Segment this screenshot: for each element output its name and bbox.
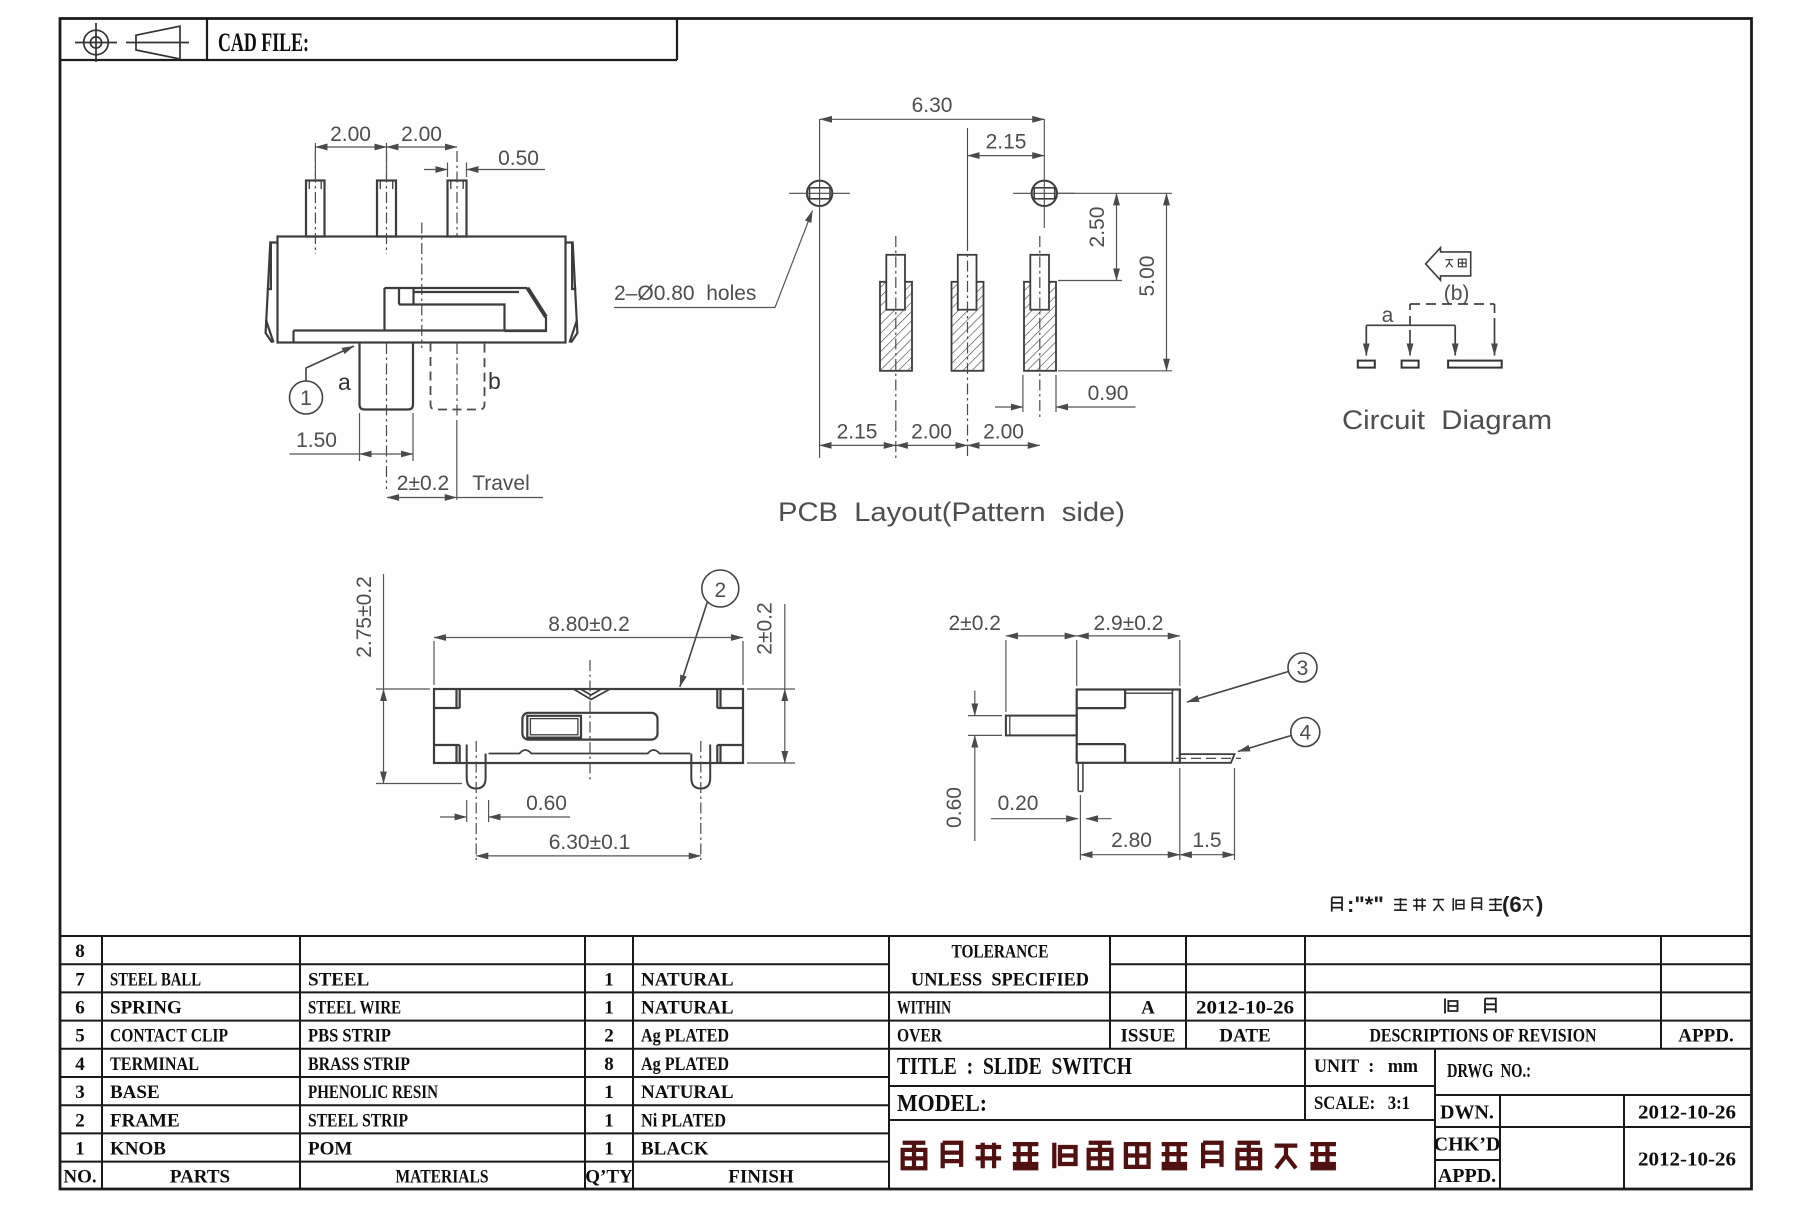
wire for position a (solid) with contact arrows — [1366, 325, 1455, 355]
side view base body — [1006, 690, 1235, 792]
solder pad 1 (hatched) — [880, 255, 912, 371]
svg-text:2±0.2: 2±0.2 — [754, 602, 777, 654]
dimensions 2±0.2 and 2.9±0.2 (top) — [1006, 636, 1180, 712]
svg-text:0.60: 0.60 — [943, 787, 966, 828]
svg-text:3: 3 — [1297, 657, 1309, 680]
dimension 2.75±0.2 — [376, 574, 462, 784]
svg-text:1: 1 — [75, 1139, 85, 1160]
dimension 2±0.2 Travel — [387, 420, 543, 500]
svg-text:STEEL WIRE: STEEL WIRE — [308, 998, 401, 1019]
svg-text:8.80±0.2: 8.80±0.2 — [548, 613, 630, 636]
svg-text:1: 1 — [604, 1082, 614, 1103]
svg-text:2.9±0.2: 2.9±0.2 — [1094, 612, 1164, 635]
svg-text:DWN.: DWN. — [1440, 1102, 1494, 1124]
svg-text:2: 2 — [604, 1026, 614, 1047]
svg-text:3: 3 — [75, 1082, 85, 1103]
svg-text:2012-10-26: 2012-10-26 — [1196, 998, 1294, 1019]
dimension 8.80±0.2 — [434, 638, 743, 686]
svg-text:DATE: DATE — [1219, 1026, 1270, 1047]
svg-text:STEEL STRIP: STEEL STRIP — [308, 1111, 408, 1132]
svg-text:6.30: 6.30 — [912, 94, 953, 117]
solder pad 3 (hatched) — [1024, 255, 1056, 371]
svg-text:BASE: BASE — [110, 1082, 160, 1103]
hole centerline crosses — [789, 119, 1075, 458]
svg-text:Ag PLATED: Ag PLATED — [641, 1026, 729, 1047]
balloon 3 (base item) — [1187, 653, 1317, 702]
svg-text:(b): (b) — [1444, 282, 1470, 305]
balloon 4 (terminal item) — [1238, 718, 1320, 752]
svg-text:5.00: 5.00 — [1136, 256, 1159, 297]
svg-text:TERMINAL: TERMINAL — [110, 1054, 199, 1075]
balloon 1 (knob item) — [290, 346, 355, 414]
pad centerlines dash-dot — [896, 236, 1040, 458]
dimension 2.15 (top) — [968, 155, 1045, 157]
svg-text:5: 5 — [75, 1026, 85, 1047]
knob (seen through slot) — [527, 716, 581, 738]
pin centerlines dash-dot — [315, 151, 457, 489]
knob b (hidden position, dashed) — [431, 343, 485, 410]
2-O0.80 holes callout with leader — [614, 211, 813, 308]
knob stem (side) — [1006, 716, 1077, 736]
reset direction arrow symbol (fu wei) — [1426, 248, 1471, 281]
dimension 6.30±0.1 (pin span) — [476, 855, 701, 857]
solder pad 2 (hatched) — [952, 255, 984, 371]
svg-text:APPD.: APPD. — [1678, 1026, 1733, 1047]
first-angle projection symbol (circle) — [75, 23, 117, 62]
svg-text:a: a — [1382, 304, 1394, 327]
svg-text:NO.: NO. — [63, 1167, 96, 1188]
svg-text:(6: (6 — [1502, 892, 1522, 917]
svg-text:KNOB: KNOB — [110, 1139, 166, 1160]
bent terminal strip right — [1180, 754, 1235, 763]
svg-text:4: 4 — [1299, 722, 1311, 745]
svg-text:NATURAL: NATURAL — [641, 1082, 734, 1103]
svg-text:1.50: 1.50 — [296, 429, 337, 452]
svg-text:1: 1 — [604, 1111, 614, 1132]
terminal pin left (bent, U end) — [467, 745, 486, 789]
dimension 0.90 (pad width) — [995, 375, 1136, 412]
dimension 2±0.2 (right of bottom view) — [747, 604, 795, 763]
svg-text:1: 1 — [604, 970, 614, 991]
svg-text:2±0.2: 2±0.2 — [397, 472, 449, 495]
svg-text:0.60: 0.60 — [526, 792, 567, 815]
front view body outline — [266, 181, 578, 343]
dimension 0.60 (pin width) — [440, 800, 570, 822]
svg-text:CONTACT CLIP: CONTACT CLIP — [110, 1026, 228, 1047]
svg-text:2.15: 2.15 — [986, 131, 1027, 154]
svg-text:b: b — [488, 368, 501, 394]
detent chevron — [574, 689, 611, 700]
svg-text:8: 8 — [75, 941, 85, 962]
svg-text:STEEL: STEEL — [308, 970, 369, 991]
svg-text:): ) — [1536, 892, 1543, 917]
svg-text:MATERIALS: MATERIALS — [396, 1167, 489, 1188]
terminal pin right (bent, U end) — [691, 745, 710, 789]
svg-text:2.50: 2.50 — [1086, 207, 1109, 248]
svg-text:A: A — [1141, 998, 1155, 1019]
svg-text:2.80: 2.80 — [1111, 829, 1152, 852]
svg-text:STEEL BALL: STEEL BALL — [110, 970, 201, 991]
svg-text:TITLE : SLIDE SWITCH: TITLE : SLIDE SWITCH — [897, 1054, 1132, 1080]
svg-text:POM: POM — [308, 1139, 352, 1160]
svg-text:Q’TY: Q’TY — [585, 1167, 633, 1188]
svg-text:7: 7 — [75, 970, 85, 991]
right flange ear — [566, 243, 578, 343]
left flange ear — [266, 243, 278, 343]
dimension 2.50 (vertical) — [1058, 193, 1172, 280]
terminal pin 2 — [377, 181, 396, 237]
svg-text:WITHIN: WITHIN — [897, 998, 951, 1019]
base bottom strip line — [294, 331, 547, 343]
svg-text:2.00: 2.00 — [983, 421, 1024, 444]
corner tab top-right — [717, 689, 743, 708]
top-left notch — [1077, 690, 1125, 709]
svg-text:BLACK: BLACK — [641, 1139, 709, 1160]
svg-text::"*": :"*" — [1347, 892, 1384, 917]
svg-text:PARTS: PARTS — [170, 1167, 230, 1188]
corner tab bottom-left — [434, 745, 460, 763]
bottom-left notch — [1077, 744, 1125, 763]
svg-text:UNLESS SPECIFIED: UNLESS SPECIFIED — [911, 970, 1089, 991]
svg-text:DESCRIPTIONS OF REVISION: DESCRIPTIONS OF REVISION — [1370, 1026, 1597, 1047]
svg-text:NATURAL: NATURAL — [641, 998, 734, 1019]
CAD FILE title strip — [60, 19, 677, 61]
svg-text:FINISH: FINISH — [728, 1167, 794, 1188]
svg-text:6.30±0.1: 6.30±0.1 — [549, 831, 631, 854]
terminal pad 3 (common, wide) — [1448, 361, 1502, 368]
svg-text:2.15: 2.15 — [837, 421, 878, 444]
svg-text:2.00: 2.00 — [401, 123, 442, 146]
dimension 2.00 / 2.00 / 0.50 (pin pitch) — [315, 143, 545, 177]
corner tab bottom-right — [717, 745, 743, 763]
svg-text:NATURAL: NATURAL — [641, 970, 734, 991]
terminal pad 1 — [1358, 361, 1375, 368]
svg-text:4: 4 — [75, 1054, 85, 1075]
terminal pad 2 — [1402, 361, 1419, 368]
dimension 1.50 (knob width) — [290, 413, 414, 461]
dimension 0.60 (stem thickness, vertical) — [968, 691, 1002, 842]
svg-text:Circuit Diagram: Circuit Diagram — [1342, 405, 1552, 435]
svg-text:2012-10-26: 2012-10-26 — [1638, 1102, 1736, 1124]
corner tab top-left — [434, 689, 460, 708]
svg-text:TOLERANCE: TOLERANCE — [952, 942, 1049, 963]
svg-text:Travel: Travel — [472, 472, 530, 495]
tolerance / revision block text — [897, 942, 1734, 1047]
TITLE BLOCK / PARTS TABLE grid — [60, 936, 1752, 1189]
mounting hole left — [807, 181, 832, 206]
knob slot opening — [522, 713, 657, 740]
svg-text:Ag PLATED: Ag PLATED — [641, 1054, 729, 1075]
svg-text:6: 6 — [75, 998, 85, 1019]
svg-text:2: 2 — [714, 579, 726, 602]
svg-text:CAD FILE:: CAD FILE: — [218, 28, 309, 57]
mounting hole right — [1032, 181, 1057, 206]
svg-text:1: 1 — [604, 1139, 614, 1160]
svg-text:2: 2 — [75, 1111, 85, 1132]
parts list text — [63, 941, 794, 1188]
knob a (solid outline) — [360, 343, 414, 410]
first-angle projection symbol (cone) — [126, 26, 189, 59]
revision entry: chu ban (initial release) — [1445, 999, 1496, 1014]
svg-text:FRAME: FRAME — [110, 1111, 180, 1132]
window right chamfer (thick) — [528, 288, 547, 317]
knob window opening — [385, 287, 528, 289]
svg-text:MODEL:: MODEL: — [897, 1091, 987, 1117]
dimensions 2.80 / 1.5 (bottom) — [1080, 768, 1234, 860]
svg-text:PHENOLIC RESIN: PHENOLIC RESIN — [308, 1082, 438, 1103]
svg-text:DRWG NO.:: DRWG NO.: — [1447, 1060, 1531, 1082]
svg-text:a: a — [338, 369, 351, 395]
front terminal edge-on (thin) — [1078, 763, 1083, 792]
svg-text:2.75±0.2: 2.75±0.2 — [353, 576, 376, 658]
note: "*" marks critical dimensions (6) — [1332, 897, 1534, 911]
lower frame edge with spring bumps — [489, 750, 691, 754]
svg-text:OVER: OVER — [897, 1026, 942, 1047]
svg-text:2.00: 2.00 — [911, 421, 952, 444]
svg-text:SCALE: 3:1: SCALE: 3:1 — [1314, 1093, 1410, 1114]
terminal pin 1 — [306, 181, 325, 237]
svg-text:8: 8 — [604, 1054, 614, 1075]
svg-text:UNIT : mm: UNIT : mm — [1314, 1056, 1418, 1077]
svg-text:1: 1 — [300, 387, 312, 410]
bottom view frame outline — [434, 689, 743, 789]
svg-text:1.5: 1.5 — [1192, 829, 1221, 852]
svg-text:2.00: 2.00 — [330, 123, 371, 146]
balloon 2 (frame item) — [680, 570, 739, 687]
wire for position b (dashed) with contact arrows — [1410, 304, 1495, 356]
dimensions 2.15 / 2.00 / 2.00 (bottom pitch) — [820, 444, 1040, 446]
svg-text:PBS STRIP: PBS STRIP — [308, 1026, 391, 1047]
svg-text:0.20: 0.20 — [998, 792, 1039, 815]
svg-text:ISSUE: ISSUE — [1121, 1026, 1176, 1047]
svg-text:Ni PLATED: Ni PLATED — [641, 1111, 726, 1132]
svg-text:2±0.2: 2±0.2 — [949, 612, 1001, 635]
svg-text:0.90: 0.90 — [1088, 382, 1129, 405]
svg-text:SPRING: SPRING — [110, 998, 182, 1019]
svg-text:2–Ø0.80 holes: 2–Ø0.80 holes — [614, 282, 756, 305]
svg-text:PCB Layout(Pattern side): PCB Layout(Pattern side) — [778, 497, 1125, 527]
svg-text:2012-10-26: 2012-10-26 — [1638, 1149, 1736, 1171]
svg-text:CHK’D: CHK’D — [1434, 1134, 1501, 1156]
terminal strip centerline — [1176, 757, 1241, 759]
svg-text:1: 1 — [604, 998, 614, 1019]
dimension 5.00 (vertical) — [1058, 193, 1172, 370]
svg-text:0.50: 0.50 — [498, 147, 539, 170]
company name (red CJK) — [903, 1143, 1336, 1169]
dimension 6.30 (hole pitch) — [820, 118, 1044, 120]
dimension 0.20 (terminal thickness) — [991, 818, 1112, 820]
svg-text:APPD.: APPD. — [1438, 1165, 1496, 1187]
centerlines — [476, 660, 701, 860]
svg-text:BRASS STRIP: BRASS STRIP — [308, 1054, 410, 1075]
terminal pin 3 — [448, 181, 467, 237]
